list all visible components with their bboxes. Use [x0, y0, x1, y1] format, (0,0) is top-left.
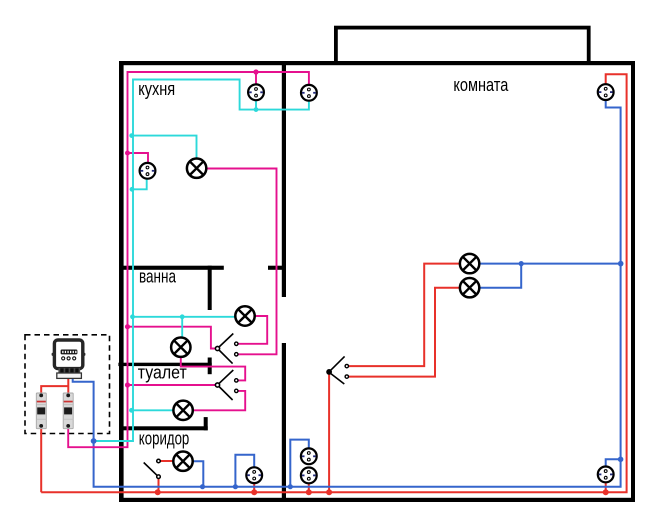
- wire magenta bath switch feed: [128, 327, 216, 349]
- wire blue room lamps to right riser: [470, 264, 621, 288]
- node blue meter junction: [91, 438, 97, 444]
- node red bus room switch: [326, 489, 332, 495]
- WIRES MAGENTA: [68, 72, 309, 447]
- wall right outer: [631, 61, 635, 502]
- wire red corridor switch contact to lamp: [160, 460, 183, 462]
- node blue bus corridor socket: [233, 484, 238, 489]
- socket corridor S4: [246, 467, 262, 483]
- wall toilet top: [118, 363, 211, 366]
- wire cyan neutral riser and kitchen top run to sockets: [95, 80, 309, 442]
- lamp bath L2: [235, 306, 254, 325]
- wire red double socket to bus: [308, 475, 310, 492]
- socket room bottom upper S5a: [301, 448, 317, 464]
- wire cyan kitchen socket1 bottom stub: [255, 92, 257, 109]
- wire magenta kitchen-left socket feed: [128, 153, 149, 171]
- node red bus double socket: [306, 489, 312, 495]
- wire red room switch pivot to bus: [328, 372, 330, 492]
- wire red corridor switch to bus: [158, 477, 160, 493]
- wire cyan bath lamp2 stub: [181, 317, 183, 347]
- node red bus corridor socket: [251, 489, 257, 495]
- wire cyan kitchen lamp feed: [132, 136, 197, 169]
- node red bus corridor switch: [155, 489, 161, 495]
- socket kitchen top S1: [248, 84, 264, 100]
- wall interior vertical lower: [282, 343, 286, 498]
- wire cyan kitchen-left socket bottom feed: [133, 171, 147, 190]
- wall interior vertical upper: [282, 65, 286, 297]
- wire red corridor socket to bus: [253, 475, 255, 492]
- lamp kitchen L1: [187, 159, 206, 178]
- lamp bath2 L3: [171, 338, 190, 357]
- METER electric counter: [52, 340, 86, 378]
- node cyan toilet: [129, 408, 134, 413]
- lamp toilet L4: [173, 401, 192, 420]
- svg-text:коридор: коридор: [139, 429, 190, 449]
- wall toilet jamb: [208, 358, 212, 375]
- node magenta riser bath: [125, 324, 130, 329]
- node cyan kitchen socket1 bottom: [254, 107, 259, 112]
- WIRES BLUE: [73, 92, 621, 487]
- wall corridor jamb: [204, 417, 208, 430]
- node blue right riser lamps: [618, 261, 624, 267]
- wall bath door jamb: [208, 266, 212, 310]
- node cyan bath lamp2: [180, 314, 185, 319]
- node cyan kitchen lamp: [129, 133, 134, 138]
- svg-text:туалет: туалет: [138, 362, 187, 382]
- wire magenta breaker2 to riser, kitchen top, room socket2: [68, 72, 309, 447]
- BREAKER 1: [36, 393, 46, 429]
- wire blue corridor lamp to bus: [194, 461, 204, 487]
- socket kitchen left S3: [140, 163, 156, 179]
- meter dashed box: [25, 335, 110, 434]
- switch toilet-bath2 two-gang SW2: [215, 370, 238, 400]
- node red bus right socket: [603, 489, 609, 495]
- wire magenta bath lamp2 to switch2 contact1: [181, 347, 245, 380]
- wall bath top: [119, 266, 224, 270]
- wall left outer: [119, 61, 124, 502]
- node blue bus corridor lamp: [200, 484, 205, 489]
- lamp room B L7: [460, 278, 479, 297]
- node blue room lamp staple: [519, 261, 524, 266]
- wire magenta kitchen socket1 stub: [255, 72, 257, 92]
- node magenta riser kitchen socket: [125, 151, 130, 156]
- wire blue bottom-right socket branch: [606, 459, 621, 474]
- lamp room A L6: [460, 254, 479, 273]
- BREAKER 2: [63, 393, 73, 429]
- wire magenta toilet lamp to switch2 contact2: [183, 391, 245, 410]
- wire red meter to breakers: [41, 378, 68, 396]
- socket room top-left S2: [301, 85, 317, 101]
- wire magenta bath lamp to switch1 contact1: [238, 316, 267, 344]
- wire blue double socket staple: [290, 440, 309, 487]
- svg-text:кухня: кухня: [138, 79, 175, 99]
- svg-text:комната: комната: [453, 75, 509, 95]
- wall corridor top: [119, 426, 208, 430]
- wire red room switch contact2 to lamp B: [347, 288, 470, 377]
- node cyan kitchen socket: [130, 187, 135, 192]
- wall bath nub right: [268, 266, 286, 270]
- socket room bottom-right S6: [598, 467, 614, 483]
- wire red breaker1 down to bus: [40, 426, 42, 492]
- wall top outer: [119, 61, 635, 65]
- WALLS: [118, 61, 635, 502]
- wire red bottom-right socket to bus: [605, 474, 607, 492]
- wire cyan bath lamp feed: [133, 316, 246, 318]
- wire blue meter down to bus, bus, right riser to top socket: [73, 92, 621, 487]
- socket room top-right S7: [598, 84, 614, 100]
- wall bottom outer: [119, 498, 635, 502]
- lamp corridor L5: [173, 452, 192, 471]
- WIRES RED: [41, 74, 626, 492]
- switch corridor SW4: [144, 459, 161, 478]
- WIRES CYAN: [95, 80, 309, 442]
- wire blue corridor socket staple: [235, 455, 254, 487]
- wire red bottom bus and right riser to top socket: [41, 74, 626, 492]
- wire cyan toilet lamp feed: [132, 409, 184, 411]
- node blue bus double socket: [288, 484, 293, 489]
- node blue right riser socket: [618, 457, 624, 463]
- node cyan bath: [130, 314, 135, 319]
- switch bath-kitchen two-gang SW1: [215, 334, 238, 364]
- node magenta riser toilet: [125, 382, 130, 387]
- switch room two-gang SW3: [327, 356, 349, 384]
- wire red room switch contact1 to lamp A: [347, 264, 470, 367]
- window balcony rect: [336, 28, 589, 63]
- wire magenta kitchen lamp to switch1 contact2: [197, 169, 277, 355]
- socket room bottom lower S5b: [301, 468, 317, 484]
- node magenta kitchen top: [253, 69, 258, 74]
- wire magenta toilet switch feed: [128, 384, 216, 386]
- svg-text:ванна: ванна: [139, 267, 177, 287]
